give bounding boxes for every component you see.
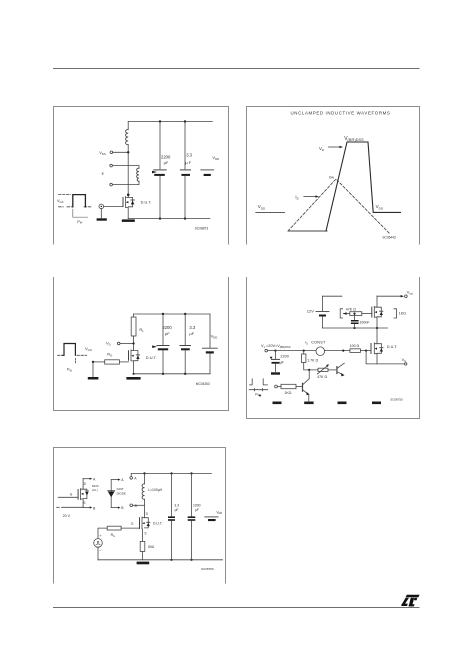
node E terminal upper [110,164,113,167]
wire: VG tap [366,351,404,364]
capacitor 2200uF [152,314,169,374]
wire: top rail (battery side) [322,295,342,297]
junction VD [133,342,135,344]
resistor 47k (clamp) with arrow [343,312,372,316]
junction gate node [365,350,367,352]
svg-text:MC04363: MC04363 [196,382,210,386]
diode FAST (demo symbol) [108,480,115,508]
svg-text:3.3: 3.3 [186,153,192,158]
svg-text:B: B [121,506,124,510]
svg-text:1.7K Ω: 1.7K Ω [307,359,318,363]
junction VDS [127,151,129,153]
svg-text:PW: PW [67,368,72,373]
svg-text:-: - [99,548,101,553]
svg-text:µF: µF [189,331,194,336]
svg-text:Vout: Vout [407,291,413,296]
input pulse edge marks [249,379,268,391]
svg-text:µF: µF [165,331,170,336]
svg-text:47K Ω: 47K Ω [346,308,356,312]
resistor 1.7k [302,351,319,370]
ground (source) [122,219,135,222]
svg-text:A: A [121,478,124,482]
inductor L=100uH [142,473,144,512]
svg-text:2200: 2200 [280,355,288,359]
svg-text:SC08780: SC08780 [201,567,214,571]
wire: RG to generator [98,528,107,539]
wire: RG to gate [119,361,128,363]
wire: VDD level left [256,211,285,213]
svg-text:VDD: VDD [258,204,266,210]
wire: input stub [277,386,281,388]
resistor 50 ohm [140,541,145,551]
transistor D.U.T. (MOSFET) [129,349,140,374]
wire: RL to drain [133,336,135,349]
junction 47k gate node [353,313,355,315]
ground (Q1 emitter) [304,402,313,405]
wire: top rail [128,121,212,123]
svg-text:B: B [93,506,96,510]
node input terminal [265,349,268,352]
junction source/rail [133,373,135,375]
ground (mid) [338,402,347,405]
pulse generator input terminal [99,204,104,209]
svg-text:D: D [146,512,149,516]
resistor RG [105,360,120,364]
svg-text:ID: ID [295,194,298,200]
svg-text:SC08873: SC08873 [195,227,209,231]
svg-text:VG: VG [402,358,407,363]
wire: top rail [132,472,212,474]
svg-text:12V: 12V [307,309,314,314]
svg-text:RG: RG [111,533,115,538]
svg-text:VDD: VDD [212,155,219,161]
svg-text:D.U.T.: D.U.T. [141,199,152,204]
svg-text:CONST: CONST [311,341,326,345]
svg-text:VGS: VGS [85,346,92,352]
input pulse waveform [58,344,87,365]
wire: VDS tap [113,151,129,153]
svg-text:B: B [135,504,138,508]
svg-text:µF: µF [175,508,179,512]
wire: lower rail of clamp section [322,327,387,329]
junction top rail @144.5 [143,472,145,474]
capacitor 3.3uF [168,473,175,559]
wire: generator to rail [97,547,99,560]
junction 1.7k tap [303,350,305,352]
svg-text:100 Ω: 100 Ω [350,344,360,348]
wire: top rail [134,313,210,315]
node pulse input terminal [275,385,278,388]
svg-text:DIODE: DIODE [117,491,126,495]
wire: Vout arrow [377,295,401,297]
figure 2 border box [247,107,420,245]
junction top rail @163 [162,313,164,315]
wire: to node A (left symbol) [83,478,90,480]
transistor MOS demo (left symbol) [78,479,88,508]
svg-text:VD: VD [106,340,111,346]
node VD terminal [117,342,120,345]
junction collector node [308,369,310,371]
svg-text:A: A [93,477,96,481]
junction top rail @160 [159,120,161,122]
svg-text:+: + [99,534,102,538]
battery 12V [316,296,329,328]
capacitor 100nF [351,314,359,328]
svg-text:47K Ω: 47K Ω [317,375,327,379]
resistor RL [133,314,135,317]
wire: gate lead (left symbol) [58,496,78,498]
wire: 100 ohm to gate [360,350,371,352]
svg-text:G: G [70,493,73,497]
ground (2200uF) [271,372,280,374]
junction bottom rail @160 [159,217,161,219]
wire: 47k to Q2 [328,369,336,371]
pulse generator [94,539,103,548]
svg-text:RG: RG [107,351,112,357]
wire: zero baseline [288,230,327,232]
junction top rail @185 [184,120,186,122]
figure 1 border box [54,107,229,245]
svg-text:50Ω: 50Ω [148,545,155,549]
wire: source lead (left symbol) [62,506,84,508]
node E terminal lower [110,183,113,186]
svg-text:D.U.T.: D.U.T. [146,355,157,360]
svg-text:2200: 2200 [162,325,172,330]
svg-text:VD: VD [319,146,324,152]
svg-text:20 V: 20 V [63,514,71,518]
wire: to node B (left symbol) [83,507,90,509]
capacitor 2200uF [152,122,166,219]
wire: 1k to base [296,386,303,388]
resistor RG [107,526,121,530]
input pulse waveform [59,195,92,218]
wire: drain vertical [127,152,129,195]
svg-text:RL: RL [139,327,144,333]
wire: 50 ohm to ground [141,551,143,559]
wire: diode to A [111,479,118,481]
ground (DUT source) [372,402,381,405]
junction bottom rail @171.5 [170,559,172,561]
svg-text:3.3: 3.3 [174,503,179,507]
wire: diode to B [111,507,118,509]
transistor clamp PMOS [372,296,383,328]
bottom rule [53,607,420,609]
svg-text:S: S [144,532,146,536]
wire: main gate-drive rail [268,350,317,352]
current source IG CONST [316,347,325,356]
svg-text:3.3: 3.3 [189,325,195,330]
svg-text:µF: µF [195,508,199,512]
node A terminal [130,477,133,480]
ground (main) [137,562,150,565]
svg-text:D: D [84,482,87,486]
junction top rail @191.5 [190,472,192,474]
svg-text:A: A [134,477,137,481]
waveform ID (dashed) [288,179,390,234]
svg-text:V(BR)DSS: V(BR)DSS [344,136,364,142]
svg-text:PW: PW [77,220,82,225]
svg-text:1KΩ: 1KΩ [399,312,406,316]
waveform VD (solid) [326,142,401,231]
wire: bottom rail [98,559,223,561]
svg-text:SC06443: SC06443 [382,235,396,239]
svg-text:µF: µF [164,160,169,165]
svg-text:D.U.T.: D.U.T. [387,345,398,349]
svg-text:S: S [83,501,85,505]
svg-text:VDD: VDD [376,204,384,210]
svg-text:100nF: 100nF [359,321,370,325]
resistor 47k variable [317,364,329,374]
svg-text:IG: IG [305,341,308,346]
node VDS terminal [110,151,113,154]
junction 2200uF tap [274,350,276,352]
ST logo [401,595,420,607]
junction bottom rail @185 [184,373,186,375]
sense winding E [112,166,139,169]
VDD supply terminal [205,517,218,521]
junction top rail @185 [184,313,186,315]
node VG terminal [405,363,407,365]
capacitor 3.3uF [180,314,190,374]
svg-text:(int.): (int.) [92,488,98,492]
wire: generator to ground [100,209,102,218]
wire: bottom rail [134,373,210,375]
svg-text:V1 =20V=V(BR)DSS: V1 =20V=V(BR)DSS [261,344,291,349]
junction drain [127,194,130,197]
svg-text:UNCLAMPED INDUCTIVE WAVEFORMS: UNCLAMPED INDUCTIVE WAVEFORMS [291,111,391,116]
ground (input) [273,402,282,405]
svg-text:µ F: µ F [185,160,191,165]
svg-text:VDD: VDD [211,333,218,339]
junction bottom rail @163 [162,373,164,375]
transistor Q1 (NPN) [303,370,310,401]
svg-text:1000: 1000 [193,503,201,507]
capacitor 1000uF [188,473,196,559]
svg-text:D.U.T.: D.U.T. [153,521,162,525]
node Vout terminal [405,295,408,298]
junction 100n [353,327,355,329]
wire: gate [104,205,123,207]
resistor 100 ohm [350,349,361,353]
resistor 1k [281,384,296,388]
svg-text:SC08750: SC08750 [390,397,403,401]
ground (source) [126,377,140,380]
wire: input to ground [92,362,94,377]
wire: source to 100 ohm [325,350,350,352]
svg-text:L=100µH: L=100µH [148,488,162,492]
node B terminal [130,504,133,507]
figure 4 border box [247,278,420,419]
bracket left [340,309,342,318]
transistor D.U.T. (MOSFET) [140,512,150,541]
transistor D.U.T. (MOSFET) [123,195,134,219]
VDD supply terminal [201,170,214,176]
capacitor 2200uF [270,351,280,372]
wire: VD tap [120,343,134,345]
junction input [92,361,94,363]
junction bottom rail @185 [184,217,186,219]
svg-text:VGS: VGS [57,199,64,204]
svg-text:µF: µF [280,360,285,364]
svg-text:G: G [131,522,134,526]
figure 3 border box [54,278,229,411]
svg-text:E: E [102,172,105,176]
bracket right [394,309,397,318]
junction top rail @171.5 [170,472,172,474]
ground (input) [88,377,99,380]
figure 5 border box [54,448,226,584]
junction bottom rail @191.5 [190,559,192,561]
transistor D.U.T. (MOSFET) [371,328,383,364]
top rule [53,68,420,70]
junction pmos drain [376,327,378,329]
capacitor 3.3uF [180,122,190,219]
wire: input to RG [93,361,105,363]
battery VDD [203,314,218,374]
svg-text:bw: bw [329,176,334,180]
junction @343 [342,350,344,352]
svg-text:1KΩ: 1KΩ [284,391,291,395]
wire: RG to gate [121,527,139,529]
svg-text:VDS: VDS [99,150,106,156]
inductor L1 [127,122,129,153]
wire: bottom rail [128,218,210,220]
ground (generator) [97,218,107,220]
transistor Q2 [337,363,345,376]
svg-text:VDD: VDD [216,510,222,515]
